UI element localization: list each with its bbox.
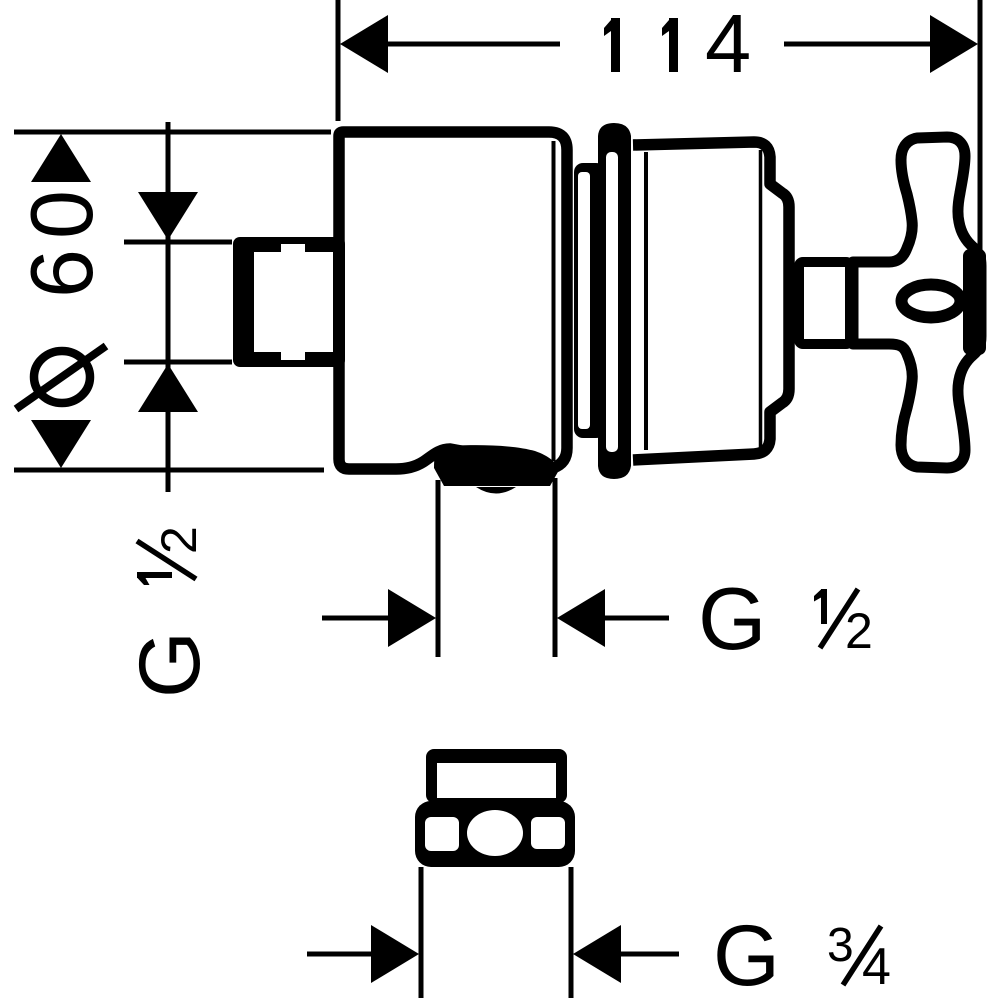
cross handle hub dark right face xyxy=(963,249,986,355)
bottom union: upper box outer xyxy=(426,749,567,803)
cartridge collar: inner white xyxy=(606,152,618,452)
trim ring: inner white xyxy=(578,172,590,429)
dimension 114: left extension line xyxy=(336,0,341,121)
dimension G1/2 spigot: up arrowhead xyxy=(138,364,198,412)
cartridge collar: outer xyxy=(598,123,631,479)
svg-text:G: G xyxy=(713,908,780,1000)
trim ring: outer xyxy=(574,163,605,438)
spigot: top thread notch xyxy=(281,244,305,252)
spigot: inner white xyxy=(254,252,333,352)
escutcheon bottom dark lens xyxy=(434,445,559,486)
svg-text:2: 2 xyxy=(845,603,873,659)
cross handle center ellipse xyxy=(902,285,961,318)
dimension d60: up arrowhead xyxy=(31,134,91,182)
escutcheon body outline xyxy=(339,132,567,469)
dimension d60: bottom extension line xyxy=(14,468,324,473)
escutcheon bottom small tab xyxy=(476,487,516,494)
bottom union: nut center ellipse xyxy=(467,810,523,856)
svg-text:G: G xyxy=(122,631,218,698)
dimension G1/2 spigot: bottom tick line xyxy=(124,360,232,365)
dimension G1/2 spigot: top tick line xyxy=(124,240,232,245)
dimension d60: diameter symbol circle xyxy=(34,351,90,403)
valve stem xyxy=(799,262,850,344)
dimension G1/2 outlet: right arrowhead xyxy=(557,589,605,647)
cartridge sleeve inner face line xyxy=(644,152,648,450)
dimension d60: down arrowhead xyxy=(31,420,91,468)
dimension d60: diameter symbol slash xyxy=(16,346,106,409)
svg-text:60: 60 xyxy=(12,180,111,298)
dimension 114: right extension line xyxy=(978,0,983,250)
dimension d60: top extension line xyxy=(14,130,331,135)
dimension 114: dimension line left segment xyxy=(386,42,560,47)
dimension G1/2 spigot: vertical dimension line xyxy=(166,122,171,492)
dimension 114: right arrowhead xyxy=(930,15,978,73)
bottom union: nut outer xyxy=(415,801,575,867)
dimension 114: dimension line right segment xyxy=(784,42,932,47)
dimension 114: value label xyxy=(604,18,620,72)
dimension G3/4: right arrowhead xyxy=(573,925,621,983)
cartridge sleeve outline xyxy=(633,142,789,460)
dimension G1/2 outlet: label 1/2 xyxy=(814,589,873,659)
dimension G1/2 outlet: left arrowhead xyxy=(388,589,436,647)
dimension G1/2 outlet: right dimension line xyxy=(601,616,669,621)
svg-text:3: 3 xyxy=(827,919,854,972)
bottom union: nut right facet xyxy=(531,817,565,849)
spigot: bottom thread notch xyxy=(281,352,305,360)
svg-text:4: 4 xyxy=(705,0,751,90)
dimension G3/4: left dimension line xyxy=(307,952,371,957)
svg-text:G: G xyxy=(698,569,766,668)
dimension G3/4: left arrowhead xyxy=(371,925,419,983)
dimension G1/2 outlet: left dimension line xyxy=(322,616,392,621)
dimension G1/2 outlet: right extension line xyxy=(553,478,558,657)
dimension G3/4: left extension line xyxy=(419,867,424,998)
svg-text:4: 4 xyxy=(862,938,891,996)
dimension G3/4: right dimension line xyxy=(621,952,679,957)
dimension G1/2 spigot: down arrowhead xyxy=(138,192,198,240)
svg-text:2: 2 xyxy=(151,526,207,554)
cartridge sleeve right face line xyxy=(759,150,763,452)
bottom union: nut left facet xyxy=(425,817,459,851)
cross handle silhouette xyxy=(853,137,981,468)
dimension G3/4: label 3/4 xyxy=(827,919,891,996)
cartridge sleeve fill xyxy=(636,142,789,460)
escutcheon inner face line xyxy=(552,141,556,461)
spigot: outer block xyxy=(233,237,345,367)
dimension 114: left arrowhead xyxy=(340,15,388,73)
dimension G1/2 spigot: label 1/2 fraction (rotated) xyxy=(137,526,207,585)
dimension G3/4: right extension line xyxy=(569,867,574,998)
bottom union: upper box inner white xyxy=(437,763,556,798)
dimension G1/2 outlet: left extension line xyxy=(436,480,441,657)
